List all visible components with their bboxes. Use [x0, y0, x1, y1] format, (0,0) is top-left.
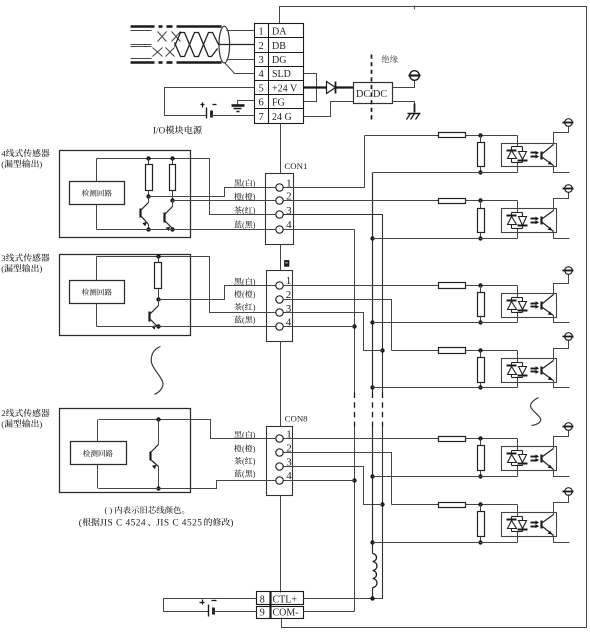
- opto-coupler PC4: [502, 359, 557, 383]
- wire: collector to output terminal 2: [554, 193, 569, 211]
- wire: opto 6 0V rail: [373, 542, 518, 544]
- opto-coupler PC3: [502, 294, 557, 318]
- label: black(white): [234, 278, 241, 285]
- svg-text:2: 2: [259, 41, 264, 52]
- continuation squiggle (left): [151, 347, 163, 395]
- opto-coupler PC5: [502, 447, 557, 471]
- cable cross-section ellipse: [219, 26, 230, 63]
- junction: [170, 198, 174, 202]
- svg-text:24 G: 24 G: [272, 112, 292, 123]
- wire: cable to pin 1 (DA): [227, 30, 255, 32]
- wire: opto 2 input: [284, 200, 439, 202]
- wire: R6a to LED: [466, 504, 518, 506]
- svg-text:): ): [253, 220, 256, 229]
- svg-text:+24 V: +24 V: [272, 83, 298, 94]
- wire: opto 4 input: [392, 350, 439, 352]
- phototransistor PC4: [542, 361, 554, 381]
- svg-text:(: (: [242, 444, 245, 453]
- svg-text:): ): [39, 419, 42, 429]
- label: brown(red): [234, 206, 242, 213]
- wire: collector to output terminal 3: [554, 275, 569, 295]
- svg-text:9: 9: [260, 608, 265, 619]
- battery BT2 (external power): [200, 600, 217, 617]
- terminal: opto 5 output: [563, 423, 574, 431]
- LED pair PC5: [507, 451, 528, 466]
- junction: [146, 227, 150, 231]
- label: black(white): [234, 431, 241, 438]
- terminal: DC/DC output: [409, 71, 421, 81]
- svg-text:(: (: [242, 470, 245, 479]
- detection circuit box: [70, 281, 125, 304]
- LED pair PC6: [507, 517, 528, 532]
- wire: detection circuit to bottom rail: [96, 304, 98, 327]
- svg-text:I/O: I/O: [153, 125, 166, 135]
- connector CON1 housing: [266, 174, 294, 245]
- svg-text:4: 4: [1, 148, 6, 158]
- label: blue(black): [234, 316, 242, 323]
- connector CON8 pin 2: [276, 449, 283, 456]
- wire: battery to pin 7 (24G): [212, 115, 255, 117]
- wire: pin 6 (FG) to chassis ground: [238, 101, 255, 105]
- resistor R6a (series): [439, 503, 466, 508]
- wire: opto 4 0V rail: [373, 387, 518, 389]
- svg-text:(: (: [242, 206, 245, 215]
- wire: CON8 pin 2 drop to opto 6: [284, 453, 392, 505]
- label: blue(black): [234, 221, 242, 228]
- phototransistor PC2: [542, 211, 554, 232]
- wire: SLD (pin 4) to FG (pin 6) bracket: [304, 74, 317, 102]
- wire: detection circuit to bottom rail: [96, 205, 98, 230]
- label: connector 2 (smudged): [284, 260, 289, 267]
- junction common: [370, 320, 374, 324]
- wire: opto 1 0V rail: [373, 172, 518, 174]
- svg-text:COM-: COM-: [273, 608, 299, 619]
- terminal: opto 3 output: [563, 267, 574, 275]
- bus: +V pin-3 net (CON1.3 to CTL+): [284, 215, 383, 393]
- svg-text:(: (: [242, 457, 245, 466]
- label: black(white): [234, 179, 241, 186]
- junction: [478, 133, 482, 137]
- diode D1: [327, 82, 336, 94]
- resistor R5a (series): [439, 437, 466, 442]
- svg-text:JIS C 4525: JIS C 4525: [156, 518, 202, 528]
- svg-text:): ): [253, 290, 256, 299]
- resistor R4b (shunt): [480, 351, 482, 358]
- connector CON2 housing: [267, 271, 293, 342]
- wire: detection circuit to top rail: [97, 420, 99, 442]
- junction: [478, 283, 482, 287]
- cable braid (twisted pairs): [175, 33, 255, 57]
- svg-text:2: 2: [1, 408, 5, 418]
- junction: [478, 198, 482, 202]
- light arrows: [531, 151, 540, 159]
- svg-text:): ): [253, 431, 256, 440]
- wire: cable to pin 3 (DG): [227, 59, 255, 61]
- terminal: opto 4 output: [563, 333, 574, 341]
- wire: COM- to 0V bus: [304, 611, 355, 613]
- light arrows: [531, 521, 540, 529]
- wire: emitter 4 to common: [554, 381, 570, 388]
- connector CON8 pin 1: [276, 435, 283, 442]
- terminal block TB (pins 1-7): [255, 24, 304, 124]
- transistor Q4: [158, 420, 160, 439]
- wire: sensor A output (orange) to CON1 pin 2: [173, 200, 277, 202]
- wire: external supply loop: [164, 599, 257, 612]
- svg-text:): ): [253, 206, 256, 215]
- wire: R1a to LED: [466, 135, 518, 137]
- label: blue(black): [234, 470, 242, 477]
- battery BT1 (I/O module power): [201, 103, 217, 119]
- connector CON1 pin 3: [276, 211, 283, 218]
- junction: [478, 320, 482, 324]
- junction: [146, 156, 150, 160]
- wire: connector 2 to CON8: [280, 342, 282, 427]
- wire: terminal block to CON1: [280, 124, 282, 174]
- resistor (pull-up 1): [148, 159, 150, 165]
- connector CON1 pin 2: [276, 197, 283, 204]
- resistor R1a (series): [439, 133, 466, 138]
- bus: opto common emitter net: [372, 173, 374, 393]
- junction CON8.4: [352, 478, 356, 482]
- wire: DC/DC to earth ground: [393, 102, 415, 104]
- bus dashed continuation (pin-4 net): [354, 393, 356, 427]
- wire: sensor B output (black) to CON2 pin 1: [159, 286, 276, 300]
- wire: +24V to DC/DC (bold): [304, 86, 354, 88]
- label: orange(orange): [234, 290, 242, 298]
- opto-coupler PC6: [502, 513, 557, 537]
- wire: R4a to LED: [466, 350, 518, 352]
- junction: [156, 417, 160, 421]
- svg-text:(: (: [242, 290, 245, 299]
- wire: sensor B +V (brown) to CON2 pin 3: [191, 257, 276, 313]
- wire: opto 1 input: [365, 135, 439, 137]
- light arrows: [531, 301, 540, 309]
- junction tick on top frame: [414, 6, 416, 10]
- junction common: [370, 474, 374, 478]
- label: detection circuit: [82, 288, 89, 295]
- wire: emitter 6 to common: [554, 536, 570, 543]
- wire: CON8 pin 4 to bus: [284, 480, 355, 482]
- junction: [478, 170, 482, 174]
- wire: CON8 to CTL/COM terminals: [280, 496, 282, 593]
- resistor R1b (shunt): [480, 136, 482, 143]
- connector CON1 pin 1: [276, 184, 283, 191]
- svg-text:(: (: [79, 517, 82, 528]
- svg-text:(: (: [1, 264, 4, 274]
- label: detection circuit: [83, 450, 90, 457]
- wire: detection circuit to bottom rail: [97, 465, 99, 489]
- junction CTL+: [370, 596, 374, 600]
- junction: [478, 385, 482, 389]
- sensor block: 3-wire sensor: [60, 255, 191, 336]
- junction: [478, 236, 482, 240]
- svg-text:( ): ( ): [105, 506, 113, 515]
- bus: common net lower: [372, 427, 374, 554]
- transistor Q2: [165, 201, 173, 232]
- wire: emitter 1 to common: [554, 166, 570, 173]
- svg-text:(: (: [242, 316, 245, 325]
- wire: opto 5 0V rail: [373, 476, 518, 478]
- svg-text:(: (: [242, 179, 245, 188]
- svg-text:): ): [230, 517, 233, 528]
- wire: +24V supply loop (pin 5): [165, 88, 255, 116]
- svg-text:FG: FG: [272, 98, 285, 109]
- wire: collector to output terminal 4: [554, 340, 569, 361]
- wire: CTL+ to +V bus: [304, 598, 383, 600]
- junction CON8.3: [380, 502, 384, 506]
- wire: R3a to LED: [466, 285, 518, 287]
- wire: DC/DC output to terminal: [393, 81, 415, 88]
- svg-text:): ): [39, 264, 42, 274]
- sensor block: 2-wire sensor: [60, 409, 191, 493]
- wire: sensor C return (blue) to CON8 pin 4: [99, 481, 277, 489]
- svg-text:(: (: [242, 277, 245, 286]
- junction: [170, 227, 174, 231]
- phototransistor PC5: [542, 449, 554, 470]
- wire: sensor C top rail: [99, 419, 191, 421]
- resistor (pull-up): [158, 257, 160, 263]
- svg-text:1: 1: [259, 27, 264, 38]
- opto-coupler PC2: [502, 209, 557, 233]
- transistor Q3: [150, 300, 159, 330]
- svg-text:): ): [253, 316, 256, 325]
- resistor R2b (shunt): [480, 201, 482, 209]
- junction common: [370, 236, 374, 240]
- connector CON8 pin 3: [276, 463, 283, 470]
- resistor (pull-up 2): [172, 159, 174, 165]
- bus dashed continuation (common net): [372, 393, 374, 427]
- connector CON1 pin 4: [276, 226, 283, 233]
- label: brown(red): [234, 457, 242, 464]
- wire: opto 5 input: [284, 438, 439, 440]
- wire: sensor B 0V rail (blue) to CON2 pin 4: [97, 326, 276, 328]
- light arrows: [531, 454, 540, 462]
- svg-text:(: (: [242, 431, 245, 440]
- wire: sensor C output (black) to CON8 pin 1: [191, 420, 277, 439]
- wire: R2a to LED: [466, 200, 518, 202]
- svg-text:(: (: [242, 220, 245, 229]
- chassis ground (FG): [232, 106, 245, 112]
- wire: opto 6 input: [392, 504, 439, 506]
- wire: sensor A 0V rail (blue) to CON1 pin 4: [97, 229, 277, 231]
- connector CON2 pin 3: [276, 309, 283, 316]
- wire: sensor A +V (brown) to CON1 pin 3: [191, 159, 277, 215]
- LED pair PC3: [507, 298, 528, 313]
- wire: CON2 pin 2 drop to opto 4: [283, 300, 392, 351]
- svg-text:(: (: [242, 303, 245, 312]
- LED pair PC2: [507, 213, 528, 229]
- resistor R4a (series): [439, 348, 466, 354]
- bus dashed continuation (pin-3 net): [382, 393, 384, 427]
- bus: pin-4 net lower: [354, 427, 356, 612]
- svg-text:CON1: CON1: [284, 161, 307, 171]
- wire: collector to output terminal 5: [554, 431, 569, 449]
- earth ground (DC/DC): [407, 104, 421, 120]
- wire: CON8 pin 3 to bus: [284, 467, 383, 505]
- svg-text:3: 3: [259, 55, 264, 66]
- wire: detection circuit to top rail: [96, 257, 98, 281]
- terminal: opto 6 output: [563, 488, 574, 496]
- detection circuit box: [71, 442, 127, 465]
- svg-text:): ): [253, 470, 256, 479]
- LED pair PC1: [507, 147, 528, 163]
- svg-text:CON8: CON8: [285, 413, 309, 423]
- wire: emitter 2 to common: [554, 232, 570, 239]
- junction: [478, 348, 482, 352]
- junction: [170, 156, 174, 160]
- transistor Q1: [141, 197, 149, 230]
- connector CON2 pin 2: [276, 296, 283, 303]
- resistor R5b (shunt): [480, 439, 482, 446]
- cable conductor stubs: [131, 31, 152, 59]
- svg-text:(: (: [242, 193, 245, 202]
- wire: module frame outline: [280, 7, 587, 628]
- wire: emitter 3 to common: [554, 316, 570, 323]
- junction CON2.3: [380, 348, 384, 352]
- wire: sensor A top rail: [97, 158, 191, 160]
- inductor L1: [373, 554, 378, 588]
- wire: opto 2 0V rail: [373, 238, 518, 240]
- label: isolation: [382, 55, 390, 63]
- DC/DC converter U1: [354, 83, 393, 104]
- terminal: opto 2 output: [563, 185, 574, 193]
- wire: R5a to LED: [466, 438, 518, 440]
- resistor R3a (series): [439, 283, 466, 289]
- junction: [156, 324, 160, 328]
- junction: [156, 486, 160, 490]
- bus: pin-3 net lower: [373, 427, 383, 599]
- svg-text:DA: DA: [272, 27, 287, 38]
- wire: opto 3 input: [283, 285, 439, 287]
- svg-text:): ): [253, 303, 256, 312]
- svg-text:(: (: [1, 159, 4, 169]
- junction: [478, 540, 482, 544]
- svg-text:SLD: SLD: [272, 69, 291, 80]
- svg-text:(: (: [1, 419, 4, 429]
- LED pair PC4: [507, 363, 528, 378]
- svg-text:): ): [253, 457, 256, 466]
- wire: pin 7 (24G) to DC/DC: [304, 102, 354, 117]
- svg-text:3: 3: [1, 253, 6, 263]
- continuation squiggle (right): [531, 398, 541, 426]
- junction: [478, 474, 482, 478]
- svg-text:5: 5: [259, 83, 264, 94]
- svg-text:DB: DB: [272, 41, 286, 52]
- wire: CON2 pin 3 to bus: [283, 313, 383, 351]
- bus: 0V return pin-4 net (CON1.4 to COM-): [284, 229, 355, 231]
- wire: sensor B top rail: [97, 256, 191, 258]
- svg-text:): ): [39, 159, 42, 169]
- connector CON8 pin 4: [276, 477, 283, 484]
- connector CON2 pin 4: [276, 323, 283, 330]
- sensor block: 4-wire sensor: [60, 151, 191, 238]
- junction: [478, 502, 482, 506]
- wire: collector to output terminal 1: [554, 127, 569, 145]
- label: orange(orange): [234, 193, 242, 201]
- wire: CON2 pin 4 to bus: [283, 326, 355, 328]
- wire: detection circuit to top rail: [96, 159, 98, 182]
- svg-text:): ): [253, 444, 256, 453]
- svg-text:6: 6: [259, 98, 264, 109]
- cable twist crossings (left): [153, 32, 181, 57]
- wire: emitter 5 to common: [554, 470, 570, 477]
- isolation boundary (dashed): [371, 55, 373, 123]
- connector CON8 housing: [267, 427, 293, 496]
- wire: CON1 to connector 2: [280, 245, 282, 271]
- wire: shield to pin 4 (SLD): [225, 63, 255, 74]
- phototransistor PC1: [542, 145, 554, 166]
- wire: opto 3 0V rail: [373, 322, 518, 324]
- junction CON2.4: [352, 324, 356, 328]
- junction common: [370, 385, 374, 389]
- terminal block TB2 (pins 8-9): [257, 592, 304, 619]
- svg-text:): ): [253, 179, 256, 188]
- resistor R6b (shunt): [480, 505, 482, 512]
- light arrows: [531, 366, 540, 374]
- junction: [156, 297, 160, 301]
- wire: inductor to CTL+ junction: [372, 588, 374, 599]
- opto-coupler PC1: [502, 144, 557, 167]
- junction common: [370, 540, 374, 544]
- detection circuit box: [70, 182, 125, 205]
- connector CON2 pin 1: [276, 282, 283, 289]
- resistor R3b (shunt): [480, 286, 482, 293]
- label: orange(orange): [234, 445, 242, 453]
- resistor R2a (series): [439, 199, 466, 204]
- phototransistor PC3: [542, 295, 554, 316]
- phototransistor PC6: [542, 515, 554, 536]
- svg-text:CTL+: CTL+: [273, 594, 298, 605]
- svg-text:8: 8: [260, 594, 265, 605]
- svg-text:): ): [253, 193, 256, 202]
- junction: [156, 254, 160, 258]
- label: detection circuit: [82, 189, 89, 196]
- junction: [478, 436, 482, 440]
- svg-text:JIS C 4524: JIS C 4524: [100, 518, 146, 528]
- svg-text:7: 7: [259, 112, 264, 123]
- light arrows: [531, 217, 540, 225]
- wire: CON1 pin 1 riser to opto 1: [284, 136, 365, 188]
- shielded twisted pair cable (sheath): [131, 27, 222, 63]
- svg-text:4: 4: [259, 69, 265, 80]
- label: brown(red): [234, 303, 242, 310]
- terminal: opto 1 output: [563, 119, 574, 127]
- junction: [146, 194, 150, 198]
- svg-text:DG: DG: [272, 55, 286, 66]
- wire: collector to output terminal 6: [554, 495, 569, 515]
- wire: battery to COM-: [214, 611, 257, 613]
- svg-text:): ): [253, 277, 256, 286]
- wire: sensor A output (black) to CON1 pin 1: [149, 188, 277, 197]
